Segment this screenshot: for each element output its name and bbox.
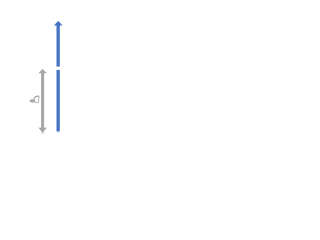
- blue vector arrow lower shaft: [57, 70, 60, 131]
- blue vector arrow head: [54, 21, 63, 26]
- label d: [30, 96, 39, 103]
- blue shaft end antialias tail: [58, 131, 59, 133]
- blue vector arrow upper shaft: [57, 25, 60, 66]
- gray arrow tip antialias foot: [41, 132, 44, 133]
- gray dimension arrow shaft: [41, 73, 44, 128]
- gray dimension arrow bottom head: [38, 128, 46, 133]
- gray dimension arrow top head: [38, 69, 46, 73]
